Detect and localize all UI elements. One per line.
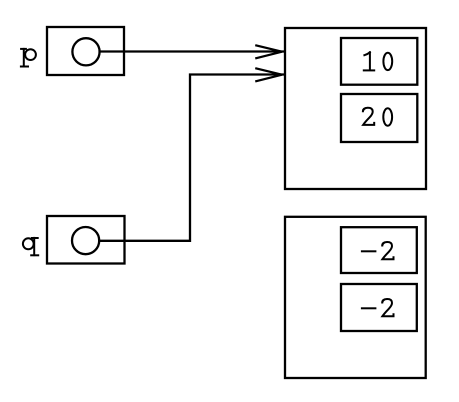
variable box p — [47, 27, 124, 75]
variable box q — [47, 216, 125, 264]
wire q to object1 — [99, 75, 284, 241]
field box value -2 (lower) — [341, 284, 417, 331]
object box 1 — [285, 28, 426, 189]
value -2 (lower) — [362, 299, 394, 316]
field box value 20 — [341, 94, 417, 142]
wire p to object1 — [100, 50, 285, 52]
object box 2 — [285, 217, 426, 378]
pointer dot q — [72, 227, 99, 254]
field box value -2 (upper) — [341, 227, 417, 273]
arrowhead p — [256, 45, 282, 58]
arrowhead q — [256, 68, 282, 81]
field box value 10 — [341, 38, 417, 85]
label p — [21, 49, 36, 67]
label q — [23, 238, 38, 255]
pointer dot p — [72, 38, 99, 65]
value -2 (upper) — [362, 242, 394, 259]
value 20 — [363, 108, 392, 126]
value 10 — [364, 52, 392, 70]
